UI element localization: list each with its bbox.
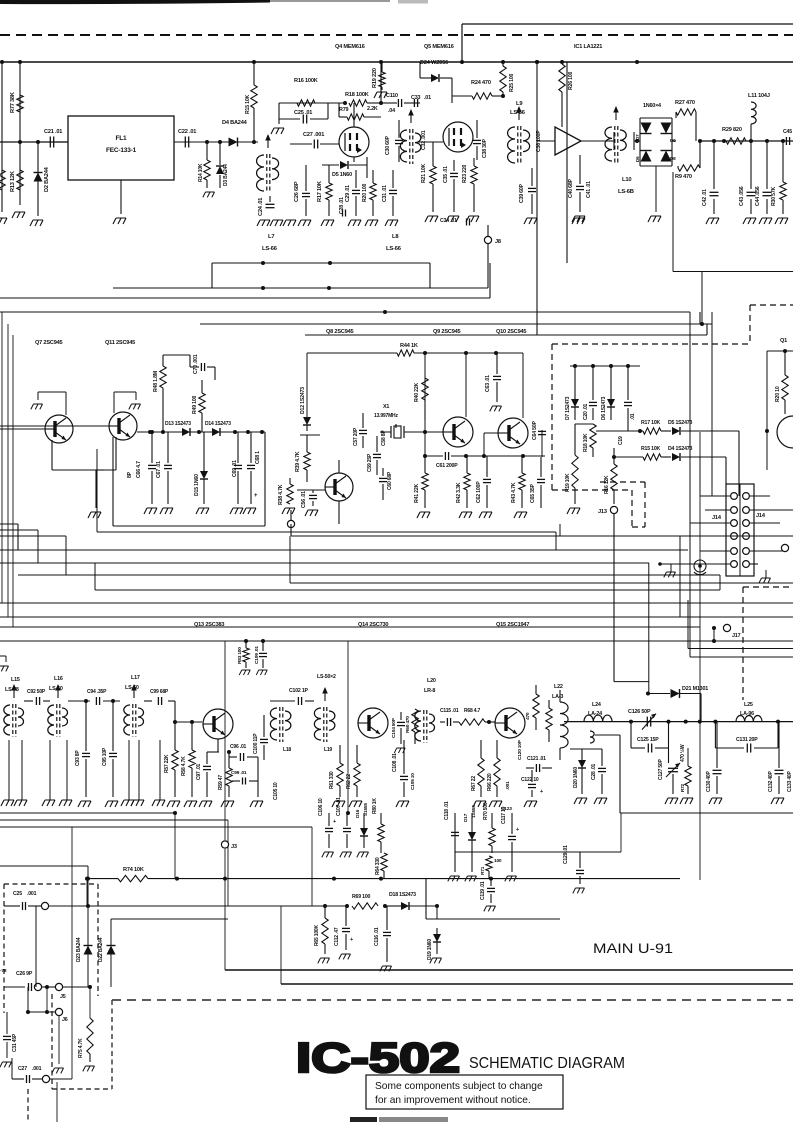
svg-text:L22: L22: [554, 684, 563, 690]
svg-text:C34 .01: C34 .01: [440, 218, 457, 224]
svg-text:L16: L16: [54, 676, 63, 682]
svg-text:C42 .01: C42 .01: [702, 189, 708, 206]
svg-text:C99 .01: C99 .01: [231, 770, 247, 776]
svg-text:R40 22K: R40 22K: [414, 382, 420, 402]
svg-text:D14 1S2473: D14 1S2473: [205, 421, 231, 427]
svg-text:C102 1P: C102 1P: [289, 688, 309, 694]
svg-text:C27: C27: [18, 1066, 27, 1072]
svg-text:J14: J14: [756, 513, 766, 519]
svg-text:D12 1S2473: D12 1S2473: [300, 387, 306, 414]
svg-text:+: +: [516, 827, 519, 833]
svg-text:D7 1S2473: D7 1S2473: [565, 396, 571, 420]
svg-text:R61 330: R61 330: [329, 771, 335, 789]
svg-text:R64 330: R64 330: [375, 857, 381, 875]
svg-text:D24 WZ056: D24 WZ056: [420, 60, 448, 66]
svg-text:R71: R71: [480, 866, 486, 875]
svg-text:R38 4.7K: R38 4.7K: [278, 484, 284, 505]
svg-text:LS-66: LS-66: [262, 246, 278, 252]
svg-text:Q14 2SC730: Q14 2SC730: [358, 622, 388, 628]
svg-text:Some components subject to: Some components subject to change: [375, 1081, 543, 1092]
svg-text:Q11 2SC945: Q11 2SC945: [105, 340, 135, 346]
svg-text:R19 10K: R19 10K: [565, 473, 571, 492]
svg-text:C127 50P: C127 50P: [658, 758, 664, 780]
svg-text:R74 10K: R74 10K: [123, 867, 144, 873]
svg-text:R26 100: R26 100: [568, 71, 574, 90]
svg-text:8P: 8P: [127, 471, 133, 478]
svg-text:R23 220: R23 220: [462, 164, 468, 183]
svg-text:R60 470: R60 470: [405, 716, 411, 733]
svg-text:LA-3: LA-3: [552, 694, 563, 700]
svg-text:R58 4.7K: R58 4.7K: [181, 756, 187, 776]
svg-text:470 ½W: 470 ½W: [679, 744, 686, 762]
svg-text:C121 .01: C121 .01: [527, 756, 546, 762]
svg-text:D5 1S2473: D5 1S2473: [668, 420, 692, 426]
svg-text:C28 .01: C28 .01: [591, 763, 597, 780]
svg-text:C116 .01: C116 .01: [374, 927, 380, 946]
svg-text:L19: L19: [324, 747, 332, 753]
svg-text:C125 15P: C125 15P: [637, 737, 659, 743]
svg-text:L7: L7: [268, 234, 274, 240]
svg-text:C45: C45: [783, 129, 792, 135]
svg-text:SCHEMATIC DIAGRAM: SCHEMATIC DIAGRAM: [469, 1055, 625, 1072]
svg-text:J13: J13: [598, 509, 607, 515]
svg-text:C97 .01: C97 .01: [196, 763, 202, 780]
svg-text:C65 35P: C65 35P: [530, 483, 536, 503]
svg-text:C62 100P: C62 100P: [476, 481, 482, 503]
svg-text:LS-6B: LS-6B: [618, 189, 634, 195]
svg-text:R15 10K: R15 10K: [245, 94, 251, 114]
svg-text:R17 10K: R17 10K: [317, 181, 323, 202]
svg-text:R29 820: R29 820: [722, 127, 742, 133]
svg-text:L25: L25: [744, 702, 753, 708]
svg-text:C63 .01: C63 .01: [485, 375, 491, 392]
svg-text:L24: L24: [592, 702, 601, 708]
svg-text:LR-8: LR-8: [424, 688, 435, 694]
svg-text:C61 200P: C61 200P: [436, 463, 458, 469]
svg-text:R66 220: R66 220: [487, 773, 493, 791]
svg-text:C105 10: C105 10: [410, 773, 416, 790]
svg-text:Q1: Q1: [780, 338, 787, 344]
svg-text:C115 .01: C115 .01: [440, 708, 459, 714]
svg-text:C93 8P: C93 8P: [75, 750, 81, 766]
svg-text:D8: D8: [670, 156, 676, 161]
svg-text:L9: L9: [516, 101, 523, 107]
svg-text:D16: D16: [355, 809, 361, 818]
svg-text:J6: J6: [62, 1017, 68, 1023]
svg-text:R83 100: R83 100: [237, 647, 243, 664]
svg-text:J3: J3: [231, 844, 237, 850]
svg-text:Q10 2SC945: Q10 2SC945: [496, 329, 526, 335]
svg-text:C25: C25: [13, 891, 22, 897]
svg-text:C66 4.7: C66 4.7: [136, 461, 142, 478]
svg-text:C106 10: C106 10: [318, 798, 324, 816]
svg-text:C43 .056: C43 .056: [739, 186, 745, 206]
svg-text:D5 1N60: D5 1N60: [332, 172, 352, 178]
svg-text:R62 22: R62 22: [346, 774, 352, 789]
svg-text:L10: L10: [622, 177, 631, 183]
svg-text:C126 50P: C126 50P: [628, 709, 651, 715]
svg-text:C70 .001: C70 .001: [193, 354, 199, 374]
svg-text:C92 50P: C92 50P: [27, 689, 46, 695]
svg-text:1N60×4: 1N60×4: [643, 103, 661, 109]
svg-text:R41 22K: R41 22K: [414, 483, 420, 503]
svg-text:C108 .01: C108 .01: [392, 753, 398, 772]
svg-text:Q7 2SC945: Q7 2SC945: [35, 340, 63, 346]
svg-text:.001: .001: [505, 781, 511, 790]
svg-text:R65 100K: R65 100K: [314, 924, 320, 946]
svg-text:R77 38K: R77 38K: [10, 92, 16, 113]
svg-text:C20 .01: C20 .01: [583, 403, 589, 420]
svg-text:Q4 MEM616: Q4 MEM616: [335, 44, 365, 50]
svg-text:D6: D6: [635, 156, 640, 162]
svg-text:R67 22: R67 22: [471, 776, 477, 791]
svg-text:R20 100: R20 100: [362, 183, 368, 202]
svg-text:L8: L8: [392, 234, 399, 240]
svg-text:C29 .01: C29 .01: [345, 185, 351, 202]
svg-text:R57 22K: R57 22K: [164, 754, 170, 773]
svg-text:Q9 2SC945: Q9 2SC945: [433, 329, 461, 335]
svg-text:R48 1.8M: R48 1.8M: [153, 371, 159, 392]
svg-text:C122 10: C122 10: [521, 777, 539, 783]
svg-text:R27 470: R27 470: [675, 100, 695, 106]
svg-text:L18: L18: [283, 747, 291, 753]
svg-text:Q13 2SC383: Q13 2SC383: [194, 622, 224, 628]
svg-text:C119 .01: C119 .01: [480, 881, 486, 900]
svg-text:R59 47: R59 47: [218, 775, 224, 790]
svg-text:R20 10: R20 10: [775, 386, 781, 402]
svg-text:D20 1N60: D20 1N60: [573, 767, 579, 788]
svg-text:D15 1N60: D15 1N60: [194, 474, 200, 496]
svg-text:R39 4.7K: R39 4.7K: [295, 451, 301, 472]
svg-text:R21 10K: R21 10K: [421, 163, 427, 183]
svg-text:+: +: [333, 819, 336, 825]
svg-text:C133 40P: C133 40P: [787, 770, 793, 792]
svg-text:L11 104J: L11 104J: [748, 93, 770, 99]
svg-text:C104 50P: C104 50P: [391, 717, 397, 738]
svg-text:C32 .001: C32 .001: [421, 130, 427, 150]
svg-text:D17: D17: [463, 813, 469, 822]
svg-text:R70 500: R70 500: [483, 802, 489, 820]
svg-text:R79: R79: [339, 107, 348, 113]
svg-text:C109 .01: C109 .01: [254, 646, 260, 664]
svg-text:C24 .01: C24 .01: [258, 198, 264, 216]
svg-text:R9 470: R9 470: [675, 174, 692, 180]
svg-text:L20: L20: [427, 678, 436, 684]
svg-text:C131 20P: C131 20P: [736, 737, 758, 743]
svg-text:D4 BA244: D4 BA244: [222, 120, 248, 126]
svg-text:D4 1S2473: D4 1S2473: [668, 446, 692, 452]
svg-text:R14 10K: R14 10K: [198, 163, 204, 182]
svg-text:D19 1N60: D19 1N60: [427, 939, 433, 960]
svg-text:C132 40P: C132 40P: [768, 770, 774, 792]
svg-text:C107 .01: C107 .01: [336, 797, 342, 816]
svg-text:R42 3.3K: R42 3.3K: [456, 482, 462, 503]
svg-text:R44 1K: R44 1K: [400, 343, 418, 349]
svg-text:D6 1S2473: D6 1S2473: [601, 396, 607, 420]
svg-text:D22 BA244: D22 BA244: [98, 937, 104, 962]
svg-text:C22 .01: C22 .01: [178, 129, 196, 135]
svg-text:C112 .47: C112 .47: [334, 927, 340, 946]
svg-text:J17: J17: [732, 633, 741, 639]
svg-text:C31 45P: C31 45P: [12, 1033, 18, 1052]
svg-text:R16 12K: R16 12K: [604, 475, 610, 494]
svg-text:D21 M1301: D21 M1301: [682, 686, 708, 692]
svg-text:X1: X1: [383, 404, 389, 410]
svg-text:C38 30P: C38 30P: [482, 138, 488, 158]
svg-text:C130 40P: C130 40P: [706, 770, 712, 792]
svg-text:R68 4.7: R68 4.7: [464, 708, 481, 714]
svg-text:D2 BA244: D2 BA244: [44, 166, 50, 192]
svg-text:C30 60P: C30 60P: [385, 135, 391, 155]
svg-text:C120 10P: C120 10P: [517, 739, 523, 760]
svg-text:R69 100: R69 100: [352, 894, 371, 900]
svg-text:C129 .01: C129 .01: [563, 845, 569, 864]
svg-text:C99 68P: C99 68P: [150, 689, 169, 695]
svg-text:C95 10P: C95 10P: [102, 747, 108, 766]
svg-text:Q15 2SC1947: Q15 2SC1947: [496, 622, 529, 628]
svg-text:C56 .01: C56 .01: [301, 491, 307, 508]
svg-text:C19: C19: [618, 436, 624, 445]
svg-text:R80 1K: R80 1K: [372, 798, 378, 814]
svg-text:LS-50×2: LS-50×2: [317, 674, 336, 680]
svg-text:J8: J8: [495, 239, 501, 245]
svg-text:C64 50P: C64 50P: [532, 420, 538, 440]
svg-text:.001: .001: [32, 1066, 42, 1072]
svg-text:L17: L17: [131, 675, 140, 681]
svg-text:C21 .01: C21 .01: [44, 129, 62, 135]
svg-text:C118 .01: C118 .01: [444, 801, 450, 820]
svg-text:C44 .056: C44 .056: [755, 186, 761, 206]
svg-text:100: 100: [494, 858, 502, 864]
svg-text:J5: J5: [60, 994, 66, 1000]
svg-text:C26 9P: C26 9P: [16, 971, 33, 977]
svg-text:for an improvement without: for an improvement without notice.: [375, 1095, 531, 1106]
svg-text:L15: L15: [11, 677, 20, 683]
svg-text:C117 10: C117 10: [501, 806, 507, 824]
svg-text:C68 1: C68 1: [255, 451, 261, 464]
svg-text:D13 1S2473: D13 1S2473: [165, 421, 191, 427]
svg-text:.01: .01: [424, 95, 431, 101]
svg-text:R25 100: R25 100: [509, 73, 515, 92]
svg-text:C40 68P: C40 68P: [568, 178, 574, 198]
svg-text:R43 4.7K: R43 4.7K: [511, 482, 517, 503]
svg-text:Q5 MEM616: Q5 MEM616: [424, 44, 454, 50]
svg-text:-78: -78: [0, 968, 7, 974]
svg-text:C26 68P: C26 68P: [294, 181, 300, 202]
svg-text:R24 470: R24 470: [471, 80, 491, 86]
svg-text:R19 220: R19 220: [372, 68, 378, 88]
svg-text:R49 100: R49 100: [192, 395, 198, 414]
svg-text:C59 25P: C59 25P: [367, 453, 373, 472]
svg-text:C35 .01: C35 .01: [443, 166, 449, 183]
svg-text:2.2K: 2.2K: [367, 106, 378, 112]
svg-text:C33: C33: [411, 95, 420, 101]
svg-text:470: 470: [525, 712, 531, 720]
svg-text:D18 1S2473: D18 1S2473: [389, 892, 416, 898]
svg-text:R18 100K: R18 100K: [345, 92, 369, 98]
svg-text:D23 BA244: D23 BA244: [76, 937, 82, 962]
svg-text:J14: J14: [712, 515, 722, 521]
svg-text:C105 10: C105 10: [273, 782, 279, 800]
svg-text:+: +: [540, 789, 543, 795]
svg-text:C96 .01: C96 .01: [230, 744, 247, 750]
svg-text:C67 .01: C67 .01: [156, 461, 162, 478]
svg-text:C41 .01: C41 .01: [586, 181, 592, 198]
svg-text:.04: .04: [388, 108, 395, 114]
svg-text:.01: .01: [630, 413, 636, 420]
svg-text:LS-66: LS-66: [386, 246, 402, 252]
svg-text:R30 57K: R30 57K: [771, 186, 777, 206]
svg-text:R75 4.7K: R75 4.7K: [78, 1038, 84, 1058]
svg-text:13.997MHz: 13.997MHz: [374, 413, 398, 419]
svg-text:.001: .001: [27, 891, 37, 897]
svg-text:C94 .35P: C94 .35P: [87, 689, 107, 695]
svg-text:FEC-133-1: FEC-133-1: [106, 147, 137, 154]
svg-text:D3 BA244: D3 BA244: [223, 164, 229, 186]
svg-text:IC1 LA1221: IC1 LA1221: [574, 44, 602, 50]
svg-text:C27 .001: C27 .001: [303, 132, 324, 138]
svg-text:IC-502: IC-502: [296, 1034, 460, 1081]
svg-text:C31 .01: C31 .01: [382, 185, 388, 202]
svg-text:C110: C110: [386, 93, 398, 99]
svg-text:R17 10K: R17 10K: [641, 420, 661, 426]
svg-text:MAIN U-91: MAIN U-91: [593, 940, 673, 956]
svg-text:R16 100K: R16 100K: [294, 78, 318, 84]
svg-text:C60 68P: C60 68P: [387, 471, 393, 490]
svg-text:C39 60P: C39 60P: [519, 183, 525, 203]
svg-text:C100 11P: C100 11P: [253, 733, 259, 754]
svg-text:C58 8P: C58 8P: [381, 430, 387, 446]
svg-text:R15 10K: R15 10K: [641, 446, 661, 452]
svg-text:Q8 2SC945: Q8 2SC945: [326, 329, 354, 335]
svg-text:C57 20P: C57 20P: [353, 427, 359, 446]
svg-text:R13 12K: R13 12K: [10, 171, 16, 192]
svg-text:R18 10K: R18 10K: [583, 433, 589, 452]
svg-text:+: +: [350, 937, 353, 943]
svg-text:FL1: FL1: [116, 135, 128, 142]
svg-text:R72: R72: [680, 784, 685, 792]
